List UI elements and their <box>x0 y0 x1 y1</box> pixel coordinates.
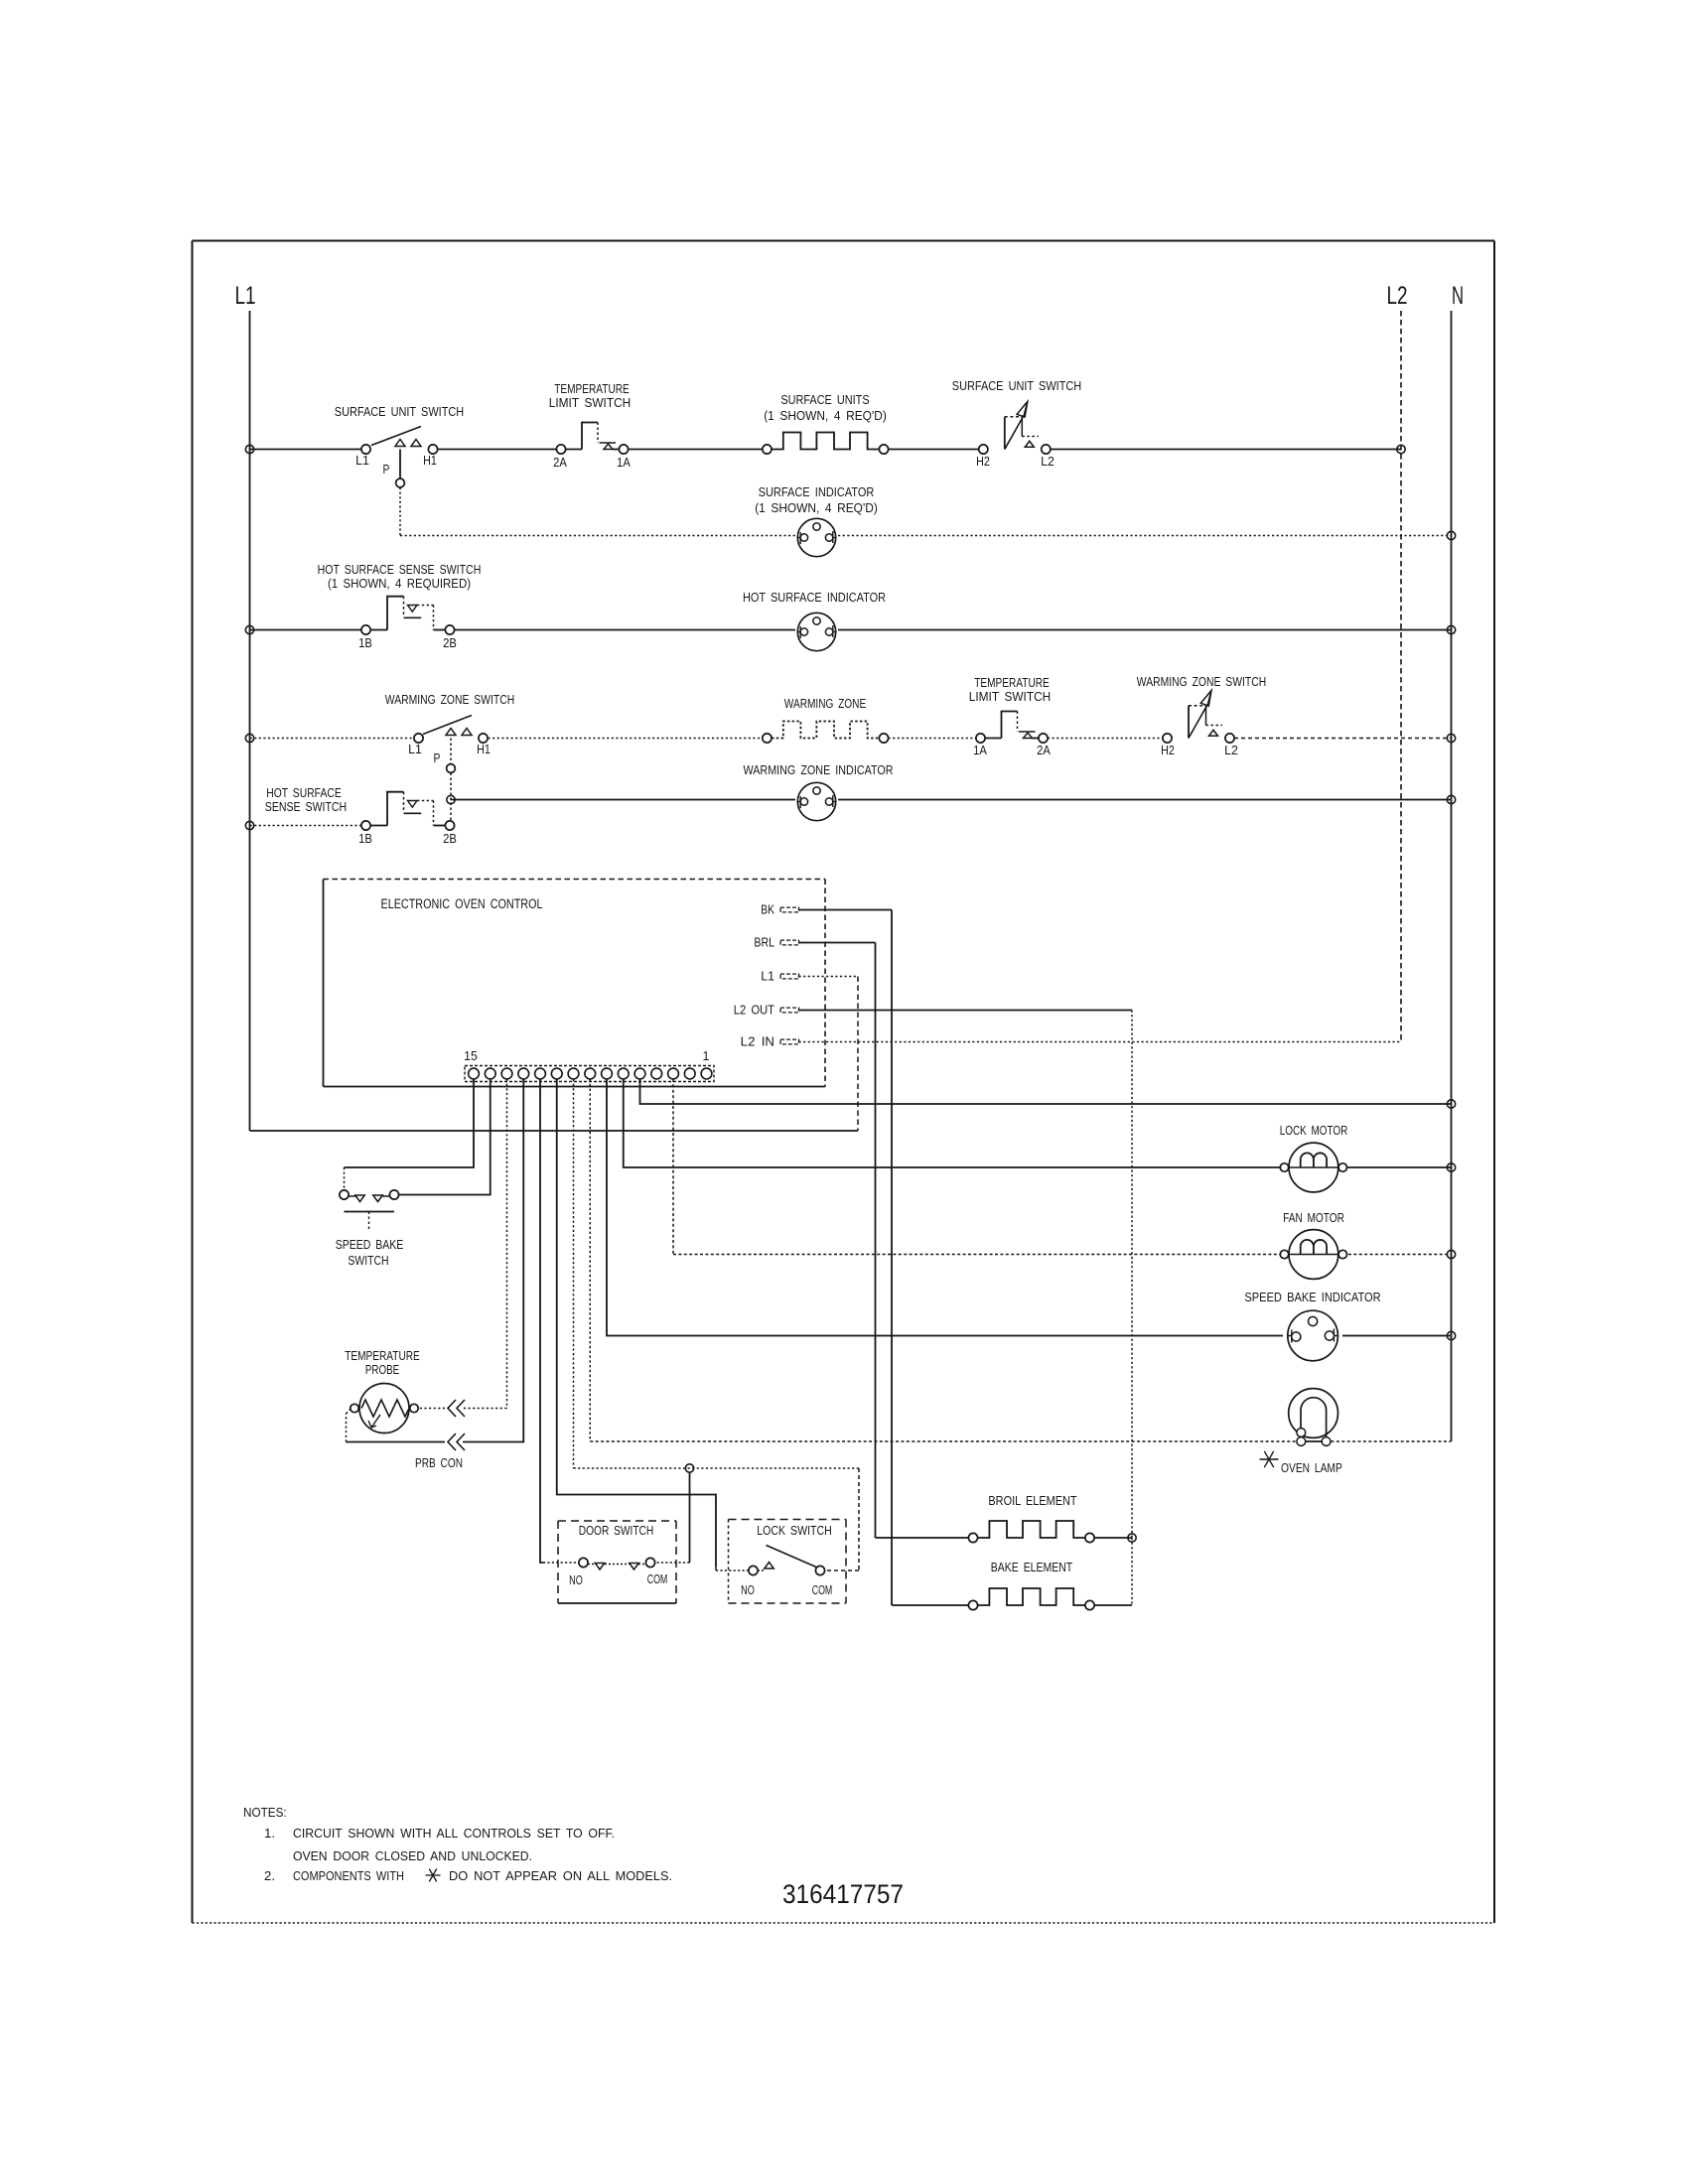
part number 316417757 <box>782 1879 904 1909</box>
node L2 supply label <box>1387 282 1408 310</box>
asterisk mark note 2 <box>426 1869 441 1882</box>
svg-text:WARMING ZONE INDICATOR: WARMING ZONE INDICATOR <box>744 762 894 777</box>
svg-text:WARMING ZONE SWITCH: WARMING ZONE SWITCH <box>1137 674 1266 689</box>
wire door COM riser <box>655 1472 690 1563</box>
wire pin7 to speed bake indicator row <box>607 1079 1452 1336</box>
lamp OVEN LAMP <box>1289 1389 1338 1446</box>
motor FAN MOTOR <box>1280 1210 1346 1279</box>
node junction N bus / speed bake indicator row <box>1447 1331 1455 1339</box>
wire pin11 to door switch NO <box>540 1079 579 1563</box>
wire BRL to broil element <box>799 943 969 1539</box>
connector chevrons PRB CON (bottom) <box>448 1433 465 1450</box>
asterisk mark oven lamp <box>1260 1451 1279 1467</box>
svg-text:(1 SHOWN, 4 REQUIRED): (1 SHOWN, 4 REQUIRED) <box>328 576 471 591</box>
svg-text:H1: H1 <box>423 453 437 468</box>
pin connector L2 IN <box>741 1034 799 1049</box>
wire L2 bus vertical (dashed) <box>1400 311 1402 1041</box>
svg-text:DO NOT APPEAR ON ALL MODELS.: DO NOT APPEAR ON ALL MODELS. <box>449 1868 672 1883</box>
wire pin3 to fan motor row (dashed) <box>673 1079 1452 1255</box>
svg-text:2.: 2. <box>264 1868 275 1883</box>
svg-text:H1: H1 <box>477 742 491 756</box>
wire surface indicator row (dotted) <box>400 487 1452 536</box>
wire L2 OUT to elements junction <box>799 1011 1133 1606</box>
svg-text:2B: 2B <box>443 831 457 846</box>
wire L1 bus vertical <box>249 311 251 1131</box>
lamp HOT SURFACE INDICATOR <box>743 590 886 651</box>
svg-text:2A: 2A <box>553 455 567 470</box>
node junction N bus / rung2 <box>1447 625 1455 633</box>
svg-text:N: N <box>1452 282 1464 310</box>
lamp SPEED BAKE INDICATOR <box>1244 1290 1380 1361</box>
svg-text:COM: COM <box>647 1571 668 1586</box>
svg-text:L2: L2 <box>1224 743 1238 757</box>
svg-text:ELECTRONIC OVEN CONTROL: ELECTRONIC OVEN CONTROL <box>381 896 543 911</box>
svg-text:OVEN LAMP: OVEN LAMP <box>1281 1460 1342 1475</box>
switch LOCK SWITCH <box>729 1520 847 1604</box>
node junction L2 bus / rung1 <box>1397 445 1405 453</box>
motor LOCK MOTOR <box>1280 1123 1348 1192</box>
svg-text:NOTES:: NOTES: <box>243 1805 287 1820</box>
node junction L1 bus / rung4 <box>245 821 253 829</box>
svg-text:L2: L2 <box>1041 454 1055 469</box>
pin connector BRL <box>754 935 798 950</box>
svg-text:TEMPERATURE: TEMPERATURE <box>554 381 630 396</box>
svg-text:TEMPERATURE: TEMPERATURE <box>345 1348 420 1363</box>
node junction L1 bus / rung3 <box>245 734 253 742</box>
svg-text:PROBE: PROBE <box>365 1362 400 1377</box>
svg-text:BRL: BRL <box>754 935 774 950</box>
wire pin15 to speed bake switch <box>345 1079 475 1190</box>
svg-text:WARMING ZONE SWITCH: WARMING ZONE SWITCH <box>385 692 514 707</box>
node junction L1 bus / rung1 <box>245 445 253 453</box>
svg-text:SURFACE UNIT SWITCH: SURFACE UNIT SWITCH <box>952 378 1081 393</box>
switch SPEED BAKE SWITCH <box>336 1190 404 1268</box>
svg-text:SURFACE UNIT SWITCH: SURFACE UNIT SWITCH <box>335 404 464 419</box>
svg-text:LOCK SWITCH: LOCK SWITCH <box>757 1523 832 1538</box>
wire pin10 to lock switch NO <box>557 1079 749 1570</box>
wire pin6 to lock motor row <box>624 1079 1452 1167</box>
node L1 supply label <box>235 282 256 310</box>
svg-text:BK: BK <box>761 902 774 917</box>
lamp WARMING ZONE INDICATOR <box>744 762 894 821</box>
node junction L1 bus / rung2 <box>245 625 253 633</box>
svg-text:COMPONENTS WITH: COMPONENTS WITH <box>293 1868 404 1883</box>
svg-text:1B: 1B <box>358 831 372 846</box>
svg-text:H2: H2 <box>976 454 990 469</box>
svg-text:15: 15 <box>464 1048 478 1063</box>
svg-text:L2 IN: L2 IN <box>741 1034 774 1049</box>
resistor SURFACE UNITS element <box>763 392 889 454</box>
svg-text:NO: NO <box>569 1572 583 1587</box>
svg-text:LIMIT SWITCH: LIMIT SWITCH <box>969 689 1051 704</box>
notes text block <box>243 1805 672 1883</box>
resistor BROIL ELEMENT <box>968 1493 1132 1543</box>
wire pin13 to temperature probe (dotted) <box>419 1079 507 1409</box>
connector terminal strip 15..1 <box>464 1048 714 1082</box>
svg-text:LIMIT SWITCH: LIMIT SWITCH <box>549 395 631 410</box>
switch HOT SURFACE SENSE SWITCH (rung2) <box>318 562 482 650</box>
svg-text:L1: L1 <box>355 453 369 468</box>
svg-text:L2 OUT: L2 OUT <box>734 1003 774 1018</box>
thermistor TEMPERATURE PROBE <box>345 1348 463 1470</box>
node junction N bus / surface indicator row <box>1447 531 1455 539</box>
wire rung4 hot-surface-sense circuit (dotted) <box>250 825 361 827</box>
node junction N bus / lock motor row <box>1447 1163 1455 1171</box>
wire rung1 surface-unit circuit <box>250 449 1402 451</box>
wire L1 from EOC to L1 bus <box>250 977 859 1132</box>
wire pin9 to door COM / lock COM (dashed) <box>574 1079 860 1570</box>
switch WARMING ZONE SWITCH (left) <box>385 692 514 772</box>
svg-text:SPEED BAKE: SPEED BAKE <box>336 1237 404 1252</box>
wire rung2 hot-surface-sense circuit <box>250 629 1452 631</box>
svg-text:CIRCUIT SHOWN WITH ALL CONTROL: CIRCUIT SHOWN WITH ALL CONTROLS SET TO O… <box>293 1826 615 1841</box>
svg-text:L1: L1 <box>408 742 422 756</box>
svg-text:WARMING ZONE: WARMING ZONE <box>784 696 867 711</box>
resistor WARMING ZONE element (dotted) <box>763 696 889 743</box>
wire warming zone indicator row <box>451 773 1452 821</box>
svg-text:TEMPERATURE: TEMPERATURE <box>974 675 1050 690</box>
switch WARMING ZONE SWITCH (right, with arrow) <box>1137 674 1266 757</box>
pin connector L2 OUT <box>734 1003 799 1018</box>
wire pin12 to probe return <box>347 1079 524 1442</box>
svg-text:SPEED BAKE INDICATOR: SPEED BAKE INDICATOR <box>1244 1290 1380 1304</box>
connector chevrons PRB (top) <box>448 1400 465 1417</box>
svg-text:LOCK MOTOR: LOCK MOTOR <box>1280 1123 1348 1138</box>
node junction N bus / pin5 wire <box>1447 1100 1455 1108</box>
svg-text:(1 SHOWN, 4 REQ'D): (1 SHOWN, 4 REQ'D) <box>755 500 878 515</box>
wire rung3 warming-zone circuit (dotted) <box>250 738 1452 740</box>
switch TEMPERATURE LIMIT SWITCH (rung3) <box>969 675 1051 757</box>
wire N bus vertical <box>1451 311 1453 1441</box>
switch SURFACE UNIT SWITCH (left) <box>335 404 464 487</box>
svg-text:NO: NO <box>741 1582 755 1597</box>
wire pin8 to oven lamp row (dashed) <box>590 1079 1451 1441</box>
svg-text:2A: 2A <box>1037 743 1051 757</box>
svg-text:SURFACE UNITS: SURFACE UNITS <box>780 392 869 407</box>
switch HOT SURFACE SENSE SWITCH (rung4) <box>265 785 457 846</box>
svg-text:L2: L2 <box>1387 282 1408 310</box>
IC ELECTRONIC OVEN CONTROL box <box>324 880 826 1087</box>
svg-text:PRB CON: PRB CON <box>415 1455 463 1470</box>
wire pin5 to N bus <box>640 1079 1452 1104</box>
switch TEMPERATURE LIMIT SWITCH (rung1) <box>549 381 631 470</box>
svg-text:COM: COM <box>812 1582 833 1597</box>
svg-text:SURFACE INDICATOR: SURFACE INDICATOR <box>759 484 875 499</box>
svg-text:SENSE SWITCH: SENSE SWITCH <box>265 799 347 814</box>
svg-text:1.: 1. <box>264 1826 275 1841</box>
svg-text:P: P <box>383 462 390 477</box>
svg-text:1A: 1A <box>973 743 987 757</box>
svg-text:BROIL ELEMENT: BROIL ELEMENT <box>988 1493 1076 1508</box>
svg-text:1B: 1B <box>358 635 372 650</box>
wire pin14 to speed bake switch <box>399 1079 491 1195</box>
svg-text:SWITCH: SWITCH <box>348 1253 388 1268</box>
svg-text:OVEN DOOR CLOSED AND UNLOCKED.: OVEN DOOR CLOSED AND UNLOCKED. <box>293 1848 532 1863</box>
svg-text:HOT SURFACE INDICATOR: HOT SURFACE INDICATOR <box>743 590 886 605</box>
svg-text:1: 1 <box>703 1048 710 1063</box>
svg-text:HOT SURFACE SENSE SWITCH: HOT SURFACE SENSE SWITCH <box>318 562 482 577</box>
pin connector L1 <box>761 969 798 984</box>
node junction P-chain / warming indicator row <box>447 795 455 803</box>
svg-text:316417757: 316417757 <box>782 1879 904 1909</box>
switch DOOR SWITCH <box>558 1521 676 1603</box>
svg-text:P: P <box>434 751 441 765</box>
pin connector BK <box>761 902 798 917</box>
lamp SURFACE INDICATOR <box>755 484 878 557</box>
resistor BAKE ELEMENT <box>968 1560 1132 1610</box>
svg-text:(1 SHOWN, 4 REQ'D): (1 SHOWN, 4 REQ'D) <box>764 408 887 423</box>
wire L2 IN from L2 bus (dotted) <box>799 1041 1402 1043</box>
node junction N bus / warming indicator row <box>1447 795 1455 803</box>
switch SURFACE UNIT SWITCH (right, with arrow) <box>952 378 1081 469</box>
wire BK to bake element (via right side) <box>799 910 969 1606</box>
node N supply label <box>1452 282 1464 310</box>
svg-text:L1: L1 <box>235 282 256 310</box>
svg-text:L1: L1 <box>761 969 774 984</box>
border frame <box>193 241 1495 1924</box>
svg-text:FAN MOTOR: FAN MOTOR <box>1283 1210 1344 1225</box>
svg-text:HOT SURFACE: HOT SURFACE <box>266 785 342 800</box>
svg-text:DOOR SWITCH: DOOR SWITCH <box>579 1523 654 1538</box>
node junction N bus / fan motor row <box>1447 1250 1455 1258</box>
svg-text:1A: 1A <box>617 455 631 470</box>
node junction pin9 wire / door COM riser <box>685 1464 693 1472</box>
svg-text:2B: 2B <box>443 635 457 650</box>
svg-text:H2: H2 <box>1161 743 1175 757</box>
node junction L2OUT / broil element <box>1128 1534 1136 1542</box>
svg-text:BAKE ELEMENT: BAKE ELEMENT <box>991 1560 1072 1574</box>
node junction N bus / rung3 <box>1447 734 1455 742</box>
